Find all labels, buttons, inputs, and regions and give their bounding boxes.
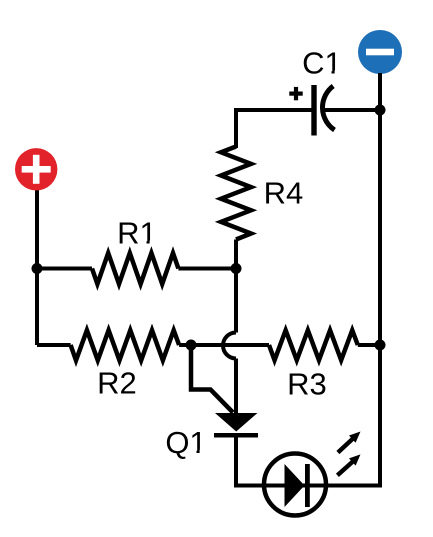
resistor R3 row (horizontal) with leads bbox=[191, 330, 380, 360]
LED light arrow lower bbox=[337, 454, 360, 475]
resistor R1 row (horizontal) with leads bbox=[37, 253, 236, 284]
wire Q1 gate lead from R2 node bbox=[191, 345, 233, 413]
wire Q1 cathode down to LED row bbox=[236, 437, 262, 486]
capacitor C1 bbox=[311, 85, 334, 136]
node junction dot (R3 right / right column) bbox=[375, 340, 386, 351]
LED light arrow upper bbox=[338, 432, 361, 453]
wire left vertical from + terminal down to R2 row bbox=[35, 188, 39, 345]
wire top row: R4 top to C1 left plate bbox=[236, 110, 312, 148]
wire vertical center upper (junction to hop) bbox=[234, 269, 238, 333]
wire R4 bottom lead to junction bbox=[234, 240, 238, 271]
label Q1 bbox=[165, 425, 206, 460]
terminal + (red positive) bbox=[15, 148, 57, 190]
node junction dot (C1 right / right column) bbox=[375, 105, 386, 116]
svg-text:R3: R3 bbox=[287, 366, 327, 401]
label C1 bbox=[302, 46, 342, 81]
wire vertical center lower (hop to Q1) bbox=[234, 359, 238, 415]
terminal - (blue negative) bbox=[358, 30, 402, 74]
C1 polarity + mark bbox=[289, 87, 302, 100]
LED diode symbol bbox=[262, 454, 380, 516]
wire C1 right to right column bbox=[324, 108, 380, 112]
svg-text:Q1: Q1 bbox=[165, 425, 206, 460]
wire crossover hop (vertical jumps horizontal) bbox=[223, 333, 236, 359]
svg-text:C1: C1 bbox=[302, 46, 342, 81]
label R1 bbox=[117, 216, 157, 251]
resistor R2 row (horizontal) with leads bbox=[37, 330, 191, 360]
node junction dot (R2 right / Q1 gate) bbox=[186, 340, 197, 351]
wire right vertical from - terminal down to LED corner bbox=[378, 73, 382, 488]
svg-text:R4: R4 bbox=[264, 175, 304, 210]
node junction dot left (R1 / left wire) bbox=[32, 263, 43, 274]
node junction dot (R1 right / R4 bottom) bbox=[231, 263, 242, 274]
svg-text:R1: R1 bbox=[117, 216, 157, 251]
resistor R4 (vertical) bbox=[221, 147, 251, 240]
transistor Q1 (thyristor symbol: triangle + cathode bar) bbox=[214, 413, 258, 438]
svg-text:R2: R2 bbox=[97, 366, 137, 401]
